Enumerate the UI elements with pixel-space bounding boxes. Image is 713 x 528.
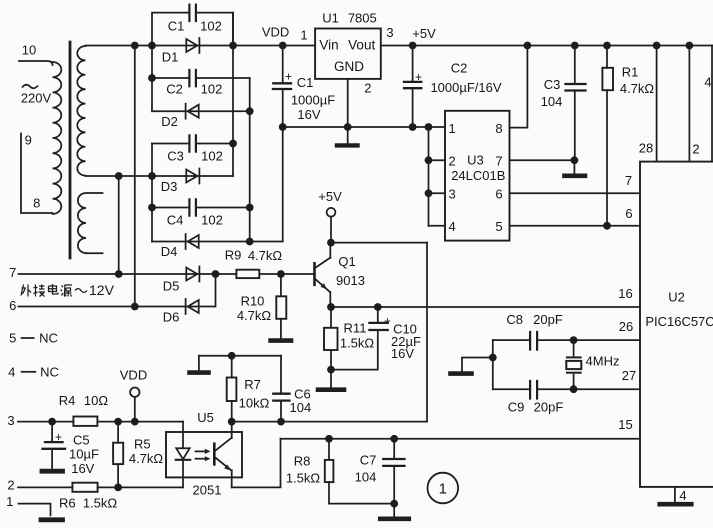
svg-text:C4: C4 bbox=[167, 213, 184, 228]
svg-text:3: 3 bbox=[386, 25, 393, 40]
wire: U2 pin2 to +5V rail bbox=[688, 46, 690, 162]
svg-text:C7: C7 bbox=[360, 453, 377, 468]
label external supply Chinese text 外接电源~12V bbox=[21, 284, 87, 297]
svg-text:+5V: +5V bbox=[412, 26, 436, 41]
svg-text:10µF: 10µF bbox=[69, 447, 99, 462]
transformer T primary winding bbox=[19, 61, 61, 214]
capacitor C4 plates bbox=[189, 199, 196, 215]
diode D3 bbox=[186, 169, 199, 184]
wire: U3 pin4 stub bbox=[429, 225, 446, 227]
wire: driver box bottom / R7-C6 line bbox=[232, 421, 427, 423]
wire: U2 pin28 to +5V rail bbox=[656, 46, 658, 162]
svg-text:C9: C9 bbox=[508, 400, 525, 415]
svg-text:U3: U3 bbox=[467, 153, 484, 168]
junction dot Q1 collector node bbox=[327, 239, 335, 247]
wire: D2 line bbox=[152, 110, 250, 112]
capacitor C3 104 bbox=[566, 46, 586, 161]
svg-text:1.5kΩ: 1.5kΩ bbox=[83, 496, 118, 511]
diode D5 bbox=[186, 267, 199, 282]
resistor R11 bbox=[324, 307, 338, 370]
ground under R10 bbox=[271, 338, 291, 343]
svg-text:R11: R11 bbox=[344, 321, 367, 336]
wire: U3 pin2 stub bbox=[429, 159, 446, 161]
wire: opto emitter to pin15 line bbox=[232, 439, 281, 488]
svg-text:D5: D5 bbox=[163, 279, 180, 294]
svg-text:2: 2 bbox=[692, 142, 699, 157]
node VDD terminal bbox=[130, 388, 139, 422]
wire: driver box top edge bbox=[331, 242, 427, 244]
svg-text:9013: 9013 bbox=[336, 273, 365, 288]
svg-text:1.5kΩ: 1.5kΩ bbox=[286, 471, 321, 486]
capacitor C2 top edge bbox=[152, 77, 250, 79]
capacitor C7 104 bbox=[383, 439, 404, 504]
wire: connector pin5 NC dash bbox=[22, 337, 34, 339]
svg-text:C2: C2 bbox=[166, 82, 183, 97]
svg-text:16: 16 bbox=[618, 286, 632, 301]
svg-text:4: 4 bbox=[704, 75, 711, 90]
svg-text:3: 3 bbox=[7, 413, 14, 428]
wire: U2 pin26 line with C8 bbox=[493, 339, 640, 341]
wire: pin4 wire at right edge bbox=[711, 46, 713, 162]
svg-text:4.7kΩ: 4.7kΩ bbox=[237, 308, 272, 323]
svg-text:Vin: Vin bbox=[319, 38, 338, 53]
diode D2 bbox=[186, 104, 199, 119]
svg-text:D4: D4 bbox=[161, 244, 178, 259]
svg-text:+5V: +5V bbox=[318, 189, 342, 204]
wire: vertical x=134.8 (rail to line 6) bbox=[134, 46, 136, 307]
svg-text:+: + bbox=[384, 314, 391, 328]
svg-text:102: 102 bbox=[201, 82, 223, 97]
svg-text:U1: U1 bbox=[322, 11, 339, 26]
svg-text:D3: D3 bbox=[161, 179, 178, 194]
svg-text:1: 1 bbox=[300, 28, 307, 43]
callout circle 1 bbox=[428, 473, 459, 504]
svg-text:8: 8 bbox=[33, 196, 40, 211]
svg-text:Q1: Q1 bbox=[338, 254, 355, 269]
junction dot R11/C10 bottom bbox=[327, 366, 335, 374]
capacitor C9 plates bbox=[530, 381, 537, 399]
svg-text:C5: C5 bbox=[73, 432, 90, 447]
svg-text:27: 27 bbox=[622, 368, 636, 383]
svg-text:6: 6 bbox=[495, 186, 502, 201]
resistor R7 bbox=[227, 356, 237, 422]
resistor R1 bbox=[602, 46, 613, 226]
svg-text:10Ω: 10Ω bbox=[84, 393, 108, 408]
wire: LED anode drop from line 3 bbox=[182, 422, 184, 449]
junction dots osc bbox=[489, 354, 497, 362]
ground under U1 pin2 bbox=[337, 127, 358, 145]
junction dots emitter node bbox=[327, 303, 335, 311]
svg-text:D2: D2 bbox=[161, 114, 178, 129]
svg-text:2: 2 bbox=[7, 478, 14, 493]
svg-text:1000µF: 1000µF bbox=[291, 93, 335, 108]
junction dots ladder bbox=[148, 74, 156, 82]
svg-text:R8: R8 bbox=[294, 454, 311, 469]
svg-text:7: 7 bbox=[625, 173, 632, 188]
svg-text:2051: 2051 bbox=[193, 483, 222, 498]
svg-text:PIC16C57C: PIC16C57C bbox=[645, 314, 713, 329]
svg-text:C3: C3 bbox=[544, 77, 561, 92]
resistor R10 bbox=[276, 274, 286, 338]
svg-text:R4: R4 bbox=[59, 393, 76, 408]
svg-text:7: 7 bbox=[9, 265, 16, 280]
junction dots U3 rail bbox=[425, 156, 433, 164]
svg-text:28: 28 bbox=[639, 141, 653, 156]
wire: driver box right edge bbox=[426, 243, 428, 422]
mcu U2 box bbox=[640, 162, 713, 487]
svg-text:104: 104 bbox=[541, 94, 563, 109]
capacitor C3 top edge bbox=[152, 143, 233, 145]
junction dot line2 bbox=[114, 484, 122, 492]
ground under R11/C10 bbox=[318, 370, 344, 390]
svg-text:12V: 12V bbox=[89, 282, 115, 298]
svg-text:R7: R7 bbox=[244, 377, 261, 392]
wire: U3 left pins rail bbox=[428, 127, 430, 226]
capacitor C6 104 bbox=[273, 356, 289, 422]
svg-text:220V: 220V bbox=[21, 91, 52, 106]
wire: line 2 bbox=[18, 486, 183, 488]
svg-text:D6: D6 bbox=[163, 310, 180, 325]
wire: line 1 with ground bbox=[19, 504, 63, 520]
wire: U2 pin27 line with C9 bbox=[493, 388, 640, 390]
svg-text:4: 4 bbox=[8, 364, 15, 379]
svg-text:1: 1 bbox=[6, 494, 13, 509]
resistor R4 bbox=[73, 417, 97, 426]
diode D4 bbox=[186, 234, 199, 249]
phototransistor inside U5 bbox=[214, 422, 231, 488]
junction dots R7/C6 line bbox=[228, 418, 236, 426]
svg-text:1: 1 bbox=[448, 121, 455, 136]
svg-text:7: 7 bbox=[495, 154, 502, 169]
ground left of R7 bbox=[190, 356, 209, 373]
capacitor C8 plates bbox=[530, 332, 537, 350]
svg-text:C1: C1 bbox=[297, 75, 314, 90]
junction dot R7 top bbox=[228, 352, 236, 360]
svg-text:+: + bbox=[55, 430, 62, 444]
wire: osc ground stub bbox=[462, 358, 493, 372]
capacitor C1 plates bbox=[189, 5, 196, 21]
svg-text:1.5kΩ: 1.5kΩ bbox=[340, 336, 375, 351]
capacitor C2 plates bbox=[189, 70, 196, 86]
junction dots ground bus bbox=[279, 123, 287, 131]
svg-text:10: 10 bbox=[22, 43, 36, 58]
wire: osc left rail bbox=[492, 340, 494, 389]
svg-text:NC: NC bbox=[40, 364, 59, 379]
svg-text:C1: C1 bbox=[168, 19, 185, 34]
ground under C7 bbox=[380, 504, 409, 519]
opto light arrows bbox=[196, 449, 211, 462]
junction dot R1 bottom bbox=[603, 222, 611, 230]
node +5V terminal above Q1 bbox=[327, 208, 336, 243]
svg-text:20pF: 20pF bbox=[533, 312, 563, 327]
svg-text:R1: R1 bbox=[622, 65, 639, 80]
junction dot C7 bottom bbox=[390, 500, 398, 508]
wire: D4 line to VDD vertical bbox=[152, 241, 283, 243]
svg-text:4: 4 bbox=[448, 219, 455, 234]
svg-text:2: 2 bbox=[364, 81, 371, 96]
svg-text:+: + bbox=[285, 70, 292, 84]
wire: U3 pin8 to +5V rail bbox=[510, 46, 528, 128]
svg-text:Vout: Vout bbox=[348, 38, 375, 53]
crystal Y1 4MHz bbox=[566, 340, 581, 389]
svg-text:4.7kΩ: 4.7kΩ bbox=[129, 451, 164, 466]
wire: ladder left rail lower bbox=[151, 176, 153, 242]
svg-text:R9: R9 bbox=[225, 248, 242, 263]
svg-text:NC: NC bbox=[39, 331, 58, 346]
ground under U2 pin4 bbox=[660, 487, 692, 504]
capacitor C3 plates bbox=[189, 135, 196, 151]
svg-text:16V: 16V bbox=[391, 346, 414, 361]
svg-text:20pF: 20pF bbox=[534, 400, 564, 415]
capacitor C4 top edge bbox=[152, 207, 250, 209]
diode D6 bbox=[186, 299, 199, 314]
transistor Q1 bbox=[315, 243, 331, 307]
svg-text:4.7kΩ: 4.7kΩ bbox=[620, 81, 655, 96]
svg-text:26: 26 bbox=[619, 319, 633, 334]
svg-text:+: + bbox=[415, 70, 422, 84]
ground under C3 bbox=[565, 160, 586, 176]
wire: U2 pin16 line (emitter node) bbox=[331, 306, 640, 308]
svg-text:102: 102 bbox=[201, 213, 223, 228]
wire: C3 loop left edge bbox=[151, 144, 153, 177]
junction dots on +5V/VDD rail bbox=[131, 42, 139, 50]
wire: U3 pin3 stub bbox=[429, 192, 446, 194]
wire: R8 bottom to C7 bbox=[329, 503, 394, 505]
wire: ladder left rail upper bbox=[151, 46, 153, 112]
wire: line 6 external supply bbox=[19, 274, 216, 307]
wire: U1 GND pin 2 bbox=[347, 79, 349, 127]
ground for osc bbox=[451, 371, 472, 376]
svg-text:R10: R10 bbox=[241, 294, 265, 309]
svg-text:C3: C3 bbox=[167, 149, 184, 164]
svg-text:VDD: VDD bbox=[262, 25, 289, 40]
svg-text:GND: GND bbox=[334, 59, 364, 74]
junction dots line7 bbox=[115, 270, 123, 278]
svg-text:R5: R5 bbox=[134, 437, 151, 452]
svg-text:6: 6 bbox=[9, 298, 16, 313]
wire: U3 pin7 to C3 junction bbox=[510, 159, 575, 161]
eeprom U3 box bbox=[445, 111, 510, 241]
capacitor C1 1000uF vertical with plates bbox=[282, 46, 284, 242]
svg-text:4MHz: 4MHz bbox=[586, 354, 620, 369]
svg-text:5: 5 bbox=[495, 219, 502, 234]
junction dot line6 bbox=[131, 303, 139, 311]
svg-text:7805: 7805 bbox=[348, 11, 377, 26]
wire: line 3 bbox=[18, 421, 183, 423]
wire: D3 line (secondary lower lead) bbox=[86, 175, 234, 177]
wire: R7 ground line bbox=[199, 355, 281, 357]
svg-text:24LC01B: 24LC01B bbox=[451, 168, 505, 183]
diode D1 bbox=[186, 38, 199, 53]
optocoupler U5 box bbox=[166, 432, 242, 477]
svg-text:3: 3 bbox=[448, 186, 455, 201]
svg-text:VDD: VDD bbox=[120, 368, 147, 383]
svg-text:8: 8 bbox=[495, 121, 502, 136]
junction dots pin15 line bbox=[325, 435, 333, 443]
svg-text:102: 102 bbox=[201, 149, 223, 164]
resistor R9 bbox=[236, 270, 259, 278]
capacitor C10 22uF bbox=[331, 307, 388, 370]
resistor R8 bbox=[325, 439, 334, 504]
svg-text:16V: 16V bbox=[297, 107, 320, 122]
svg-text:15: 15 bbox=[618, 417, 632, 432]
svg-text:C8: C8 bbox=[506, 312, 523, 327]
svg-text:104: 104 bbox=[290, 400, 312, 415]
resistor R6 bbox=[72, 483, 97, 492]
svg-text:104: 104 bbox=[355, 470, 377, 485]
wire: U2 pin15 line bbox=[281, 438, 641, 440]
capacitor C5 10uF bbox=[43, 422, 66, 468]
resistor R5 bbox=[113, 422, 123, 488]
svg-text:4: 4 bbox=[679, 488, 686, 503]
svg-text:6: 6 bbox=[625, 206, 632, 221]
wire: main VDD rail (secondary top lead to U1 Vin) bbox=[86, 45, 316, 47]
svg-text:1: 1 bbox=[439, 481, 447, 498]
wire: +5V rail (U1 Vout to right edge) bbox=[381, 45, 713, 47]
svg-text:R6: R6 bbox=[59, 496, 76, 511]
svg-text:1000µF/16V: 1000µF/16V bbox=[430, 80, 501, 95]
svg-text:C2: C2 bbox=[451, 61, 468, 76]
svg-text:102: 102 bbox=[200, 19, 222, 34]
svg-text:10kΩ: 10kΩ bbox=[239, 396, 270, 411]
LED inside U5 bbox=[176, 448, 190, 487]
wire: connector pin4 NC dash bbox=[22, 371, 36, 373]
svg-text:5: 5 bbox=[9, 331, 16, 346]
svg-text:4.7kΩ: 4.7kΩ bbox=[248, 248, 283, 263]
wire: vertical x=118.7 (D3 line to line 7) bbox=[118, 176, 120, 274]
svg-text:D1: D1 bbox=[162, 50, 179, 65]
wire: ladder right rail x=249.7 bbox=[249, 78, 251, 242]
junction dot C3/pin7 bbox=[571, 156, 579, 164]
wire: line 7 external supply bbox=[19, 273, 281, 275]
wire: Q1 base wire bbox=[281, 273, 315, 275]
transformer core bbox=[69, 42, 72, 258]
svg-text:16V: 16V bbox=[71, 461, 94, 476]
wire: ground bus bbox=[283, 126, 445, 128]
svg-text:2: 2 bbox=[448, 154, 455, 169]
wire: U3 pin6 to U2 pin7 bbox=[510, 192, 641, 194]
svg-text:U5: U5 bbox=[197, 410, 214, 425]
wire: U3 pin5 to U2 pin6 bbox=[510, 225, 641, 227]
junction dots line3 bbox=[48, 418, 56, 426]
transformer secondary winding upper bbox=[77, 46, 85, 176]
svg-text:U2: U2 bbox=[668, 290, 685, 305]
regulator U1 box bbox=[315, 29, 381, 79]
capacitor C2 1000uF/16V bbox=[404, 46, 421, 128]
transformer secondary winding lower bbox=[78, 193, 103, 253]
capacitor C1 loop top edge bbox=[152, 13, 233, 46]
ground under C5 bbox=[42, 469, 63, 474]
svg-text:9: 9 bbox=[25, 133, 32, 148]
wire: ladder mid vertical x=233 bbox=[232, 13, 234, 176]
